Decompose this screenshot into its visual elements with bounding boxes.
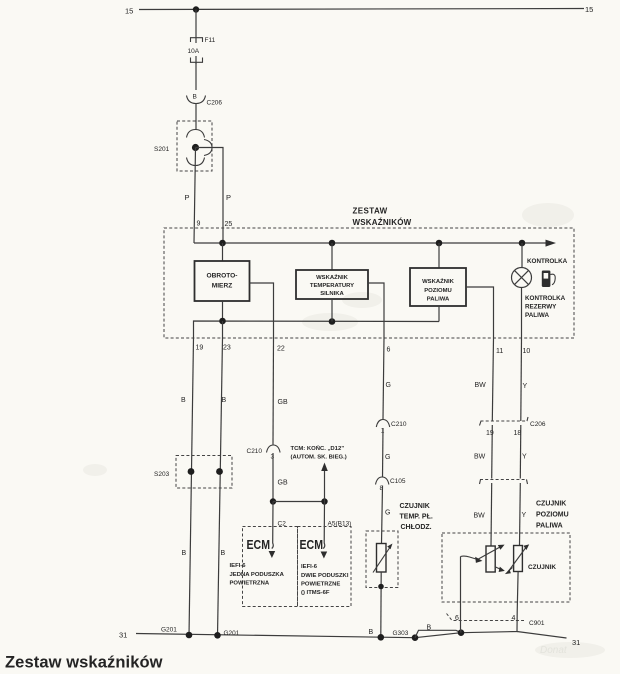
wire: tach bottom to lower bus bbox=[222, 301, 224, 321]
node: bus junction lamp bbox=[519, 240, 526, 247]
wire G from pin 6 bbox=[383, 338, 384, 420]
svg-text:10A: 10A bbox=[188, 48, 200, 55]
label IEFI-6 DWIE PODUSZKI POWIETRZNE ITMS-6F bbox=[301, 564, 349, 596]
wire: fuel gauge output to pin 11 bbox=[466, 287, 494, 338]
svg-text:Y: Y bbox=[522, 512, 527, 519]
splice S201 bbox=[154, 121, 212, 171]
svg-text:F11: F11 bbox=[205, 37, 216, 44]
svg-text:JEDNA PODUSZKA: JEDNA PODUSZKA bbox=[230, 572, 285, 578]
svg-text:REZERWY: REZERWY bbox=[525, 304, 557, 311]
svg-text:P: P bbox=[226, 193, 231, 202]
node: bus junction fuel gauge bbox=[436, 240, 443, 247]
wire: branch into ECM2 bbox=[323, 502, 325, 549]
svg-text:B: B bbox=[181, 397, 186, 404]
wire: branch to TCM node bbox=[273, 501, 325, 503]
svg-text:TEMP. PŁ.: TEMP. PŁ. bbox=[400, 514, 433, 521]
svg-text:WSKAŹNIKÓW: WSKAŹNIKÓW bbox=[353, 218, 412, 227]
wire: bus to lamp bbox=[521, 243, 523, 268]
node: G201 junction 2 bbox=[214, 632, 221, 639]
wire: fuel gauge bottom to lower bus bbox=[438, 306, 440, 322]
svg-text:Y: Y bbox=[523, 383, 528, 390]
svg-text:CHŁODZ.: CHŁODZ. bbox=[401, 524, 432, 531]
wire BW mid bbox=[491, 425, 494, 479]
svg-text:WSKAŹNIK: WSKAŹNIK bbox=[316, 273, 348, 281]
svg-text:G: G bbox=[385, 454, 390, 461]
svg-text:10: 10 bbox=[523, 348, 531, 355]
svg-text:22: 22 bbox=[277, 346, 285, 353]
svg-text:BW: BW bbox=[474, 454, 486, 461]
svg-text:S201: S201 bbox=[154, 146, 170, 153]
wire Y mid bbox=[519, 425, 522, 479]
node: bus junction temp gauge bbox=[329, 240, 336, 247]
wire GB from pin 22 bbox=[272, 338, 275, 445]
ECM box 2 bbox=[298, 527, 352, 607]
svg-text:B: B bbox=[182, 550, 187, 557]
svg-text:GB: GB bbox=[278, 480, 288, 487]
svg-text:(AUTOM. SK. BIEG.): (AUTOM. SK. BIEG.) bbox=[291, 455, 347, 461]
wire: sender pin6 to junction bbox=[460, 629, 463, 633]
scan smudges (decorative) bbox=[83, 203, 605, 658]
connector C105 pin 8 bbox=[376, 477, 406, 492]
svg-text:25: 25 bbox=[225, 221, 233, 228]
tachometer OBROTO-MIERZ bbox=[195, 261, 250, 301]
svg-text:S203: S203 bbox=[154, 471, 170, 478]
node: G303 junction bbox=[412, 634, 419, 641]
svg-text:KONTROLKA: KONTROLKA bbox=[527, 258, 568, 265]
wire Y lower bbox=[519, 483, 522, 546]
wire: sender right leg to pin 4 bbox=[516, 572, 519, 613]
svg-text:11: 11 bbox=[496, 348, 503, 355]
node: bus junction pin25 bbox=[219, 240, 226, 247]
wire: pin23 segment inside cluster bbox=[222, 321, 224, 338]
temp gauge WSKAZNIK TEMPERATURY SILNIKA bbox=[296, 270, 368, 299]
svg-text:ZESTAW: ZESTAW bbox=[353, 207, 388, 216]
wire: lower return bus bbox=[194, 321, 440, 338]
svg-text:CZUJNIK: CZUJNIK bbox=[536, 501, 566, 508]
svg-text:G: G bbox=[385, 510, 390, 517]
svg-text:WSKAŹNIK: WSKAŹNIK bbox=[422, 277, 454, 285]
label KONTROLKA REZERWY PALIWA bbox=[525, 295, 566, 319]
node: GB junction bbox=[270, 498, 276, 504]
connector C206 pins 19 18 bbox=[480, 417, 546, 437]
wire G lower bbox=[382, 486, 383, 544]
svg-text:15: 15 bbox=[585, 5, 593, 14]
lamp KONTROLKA REZERWY PALIWA bbox=[512, 268, 532, 288]
svg-text:B: B bbox=[369, 629, 374, 636]
wire: rail to fuse bbox=[195, 10, 197, 44]
svg-text:G303: G303 bbox=[393, 630, 409, 637]
wire: power rail 15 bbox=[125, 5, 593, 16]
svg-text:BW: BW bbox=[475, 382, 487, 389]
wiper arm with arrow bbox=[461, 556, 483, 563]
wire BW lower bbox=[490, 483, 493, 546]
node: S203 splice on wire 23 bbox=[216, 468, 223, 475]
svg-text:PALIWA: PALIWA bbox=[536, 523, 563, 530]
node: G201 junction 1 bbox=[186, 632, 193, 639]
node: sender ground junction bbox=[458, 629, 465, 636]
fuel level sender box bbox=[442, 533, 570, 602]
svg-text:G201: G201 bbox=[161, 627, 177, 634]
wire P to pin 9 bbox=[194, 148, 196, 244]
svg-text:BW: BW bbox=[474, 513, 486, 520]
wire: GB into ECM1 bbox=[272, 502, 274, 549]
svg-text:15: 15 bbox=[125, 7, 133, 16]
svg-text:GB: GB bbox=[278, 399, 288, 406]
svg-text:C901: C901 bbox=[529, 620, 545, 627]
svg-text:C206: C206 bbox=[207, 100, 223, 107]
instrument cluster box ZESTAW WSKAZNIKOW bbox=[164, 207, 574, 339]
svg-text:DWIE PODUSZKI: DWIE PODUSZKI bbox=[301, 573, 349, 579]
svg-text:19: 19 bbox=[196, 345, 204, 352]
svg-text:SILNIKA: SILNIKA bbox=[320, 291, 344, 297]
svg-text:POWIETRZNA: POWIETRZNA bbox=[230, 581, 270, 587]
wire: B link G303 to sender bbox=[415, 630, 461, 637]
wire: C206 to S201 bbox=[195, 104, 197, 131]
connector C206 pin B bbox=[187, 94, 223, 107]
wire: tach output to pin 22 bbox=[250, 283, 274, 338]
svg-text:CZUJNIK: CZUJNIK bbox=[528, 564, 556, 571]
svg-text:POWIETRZNE: POWIETRZNE bbox=[301, 582, 340, 588]
wire B from pin 23 to G201 bbox=[218, 338, 223, 636]
label IEFI-6 JEDNA PODUSZKA POWIETRZNA bbox=[230, 563, 285, 587]
svg-text:B: B bbox=[221, 550, 226, 557]
svg-text:C210: C210 bbox=[391, 421, 407, 428]
svg-text:C210: C210 bbox=[247, 448, 263, 455]
node: junction on rail 15 bbox=[193, 6, 199, 12]
svg-text:() ITMS-6F: () ITMS-6F bbox=[301, 590, 330, 596]
resistor: fuel sender right bbox=[505, 544, 529, 574]
wire GB below C210 bbox=[272, 453, 274, 502]
wire BW from pin 11 bbox=[492, 338, 493, 421]
splice S203 bbox=[154, 456, 232, 489]
wire: pin 4 to ground bus bbox=[461, 612, 517, 633]
wire: bus to tachometer bbox=[222, 243, 224, 261]
svg-text:CZUJNIK: CZUJNIK bbox=[400, 503, 430, 510]
svg-text:C105: C105 bbox=[390, 478, 406, 485]
node: lower bus junction temp bbox=[329, 318, 336, 325]
svg-text:Zestaw wskaźników: Zestaw wskaźników bbox=[5, 654, 163, 672]
connector C901 bbox=[447, 614, 545, 628]
node: S203 splice on wire 19 bbox=[188, 468, 195, 475]
label TCM bbox=[291, 444, 347, 461]
node: TCM branch junction bbox=[321, 498, 327, 504]
wire G mid bbox=[382, 428, 385, 478]
resistor: fuel sender left bbox=[478, 545, 505, 572]
wire: sender left leg to pin 6 bbox=[460, 557, 462, 630]
coolant temp sensor box bbox=[366, 531, 398, 588]
wire Y from pin 10 bbox=[520, 338, 523, 421]
fuel gauge WSKAZNIK POZIOMU PALIWA bbox=[410, 268, 466, 306]
svg-text:P: P bbox=[185, 193, 190, 202]
svg-text:G201: G201 bbox=[224, 630, 240, 637]
wire B from pin 19 to G201 bbox=[189, 338, 194, 636]
svg-text:IEFI-6: IEFI-6 bbox=[301, 564, 318, 570]
svg-text:PALIWA: PALIWA bbox=[427, 297, 450, 303]
svg-text:IEFI-6: IEFI-6 bbox=[230, 563, 247, 569]
svg-text:ECM: ECM bbox=[247, 537, 271, 552]
wire: arrow to TCM bbox=[321, 463, 328, 502]
svg-text:MIERZ: MIERZ bbox=[212, 283, 233, 290]
node: temp sensor ground junction bbox=[378, 634, 385, 641]
svg-text:B: B bbox=[222, 397, 227, 404]
svg-text:B: B bbox=[427, 625, 432, 632]
wire: bus to temp gauge bbox=[331, 243, 333, 270]
svg-text:9: 9 bbox=[197, 221, 201, 228]
svg-text:B: B bbox=[193, 94, 197, 101]
svg-text:C206: C206 bbox=[530, 421, 546, 428]
pin arrow into ECM2 bbox=[321, 552, 328, 559]
connector C210 pin 3 bbox=[247, 445, 281, 461]
wire: bus to fuel gauge bbox=[438, 243, 440, 268]
label CZUJNIK POZIOMU PALIWA bbox=[536, 501, 569, 530]
svg-text:KONTROLKA: KONTROLKA bbox=[525, 295, 566, 302]
node: sensor ground dot bbox=[378, 584, 384, 590]
label CZUJNIK TEMP. PL. CHLODZ. bbox=[400, 503, 433, 531]
wire: S201 to pin 25 branch bbox=[196, 148, 224, 244]
wire: top feed bus with arrow bbox=[194, 240, 556, 247]
svg-text:POZIOMU: POZIOMU bbox=[424, 288, 452, 294]
icon: fuel pump bbox=[542, 271, 555, 288]
svg-text:POZIOMU: POZIOMU bbox=[536, 512, 569, 519]
wire: fuse to connector C206 bbox=[195, 62, 197, 90]
wire: temp gauge output to pin 6 bbox=[368, 283, 384, 338]
svg-text:PALIWA: PALIWA bbox=[525, 312, 549, 319]
wire: ground rail 31 bbox=[119, 631, 580, 648]
wire: temp gauge bottom bbox=[331, 299, 333, 322]
fuse F11 10A bbox=[188, 37, 216, 64]
svg-text:OBROTO-: OBROTO- bbox=[206, 273, 237, 280]
resistor: coolant temp sensor bbox=[373, 544, 393, 573]
ECM box 1 bbox=[243, 527, 298, 607]
svg-text:TCM: KOŃC. „D12”: TCM: KOŃC. „D12” bbox=[291, 444, 345, 452]
svg-text:Y: Y bbox=[522, 454, 527, 461]
svg-text:G: G bbox=[386, 382, 391, 389]
pin arrow into ECM1 bbox=[269, 551, 276, 558]
svg-text:31: 31 bbox=[119, 631, 127, 640]
wire: sensor to ground bbox=[380, 572, 382, 637]
svg-text:6: 6 bbox=[387, 347, 391, 354]
node: lower bus junction tach bbox=[219, 318, 226, 325]
svg-text:ECM: ECM bbox=[300, 537, 324, 552]
svg-text:31: 31 bbox=[572, 638, 580, 647]
connector C210 pin 1 bbox=[376, 420, 407, 435]
svg-text:TEMPERATURY: TEMPERATURY bbox=[310, 283, 354, 289]
svg-text:Donat: Donat bbox=[540, 645, 568, 656]
svg-text:23: 23 bbox=[223, 345, 231, 352]
connector: harness pass-through bbox=[480, 480, 528, 485]
wire: lamp to pin 10 bbox=[521, 288, 523, 339]
